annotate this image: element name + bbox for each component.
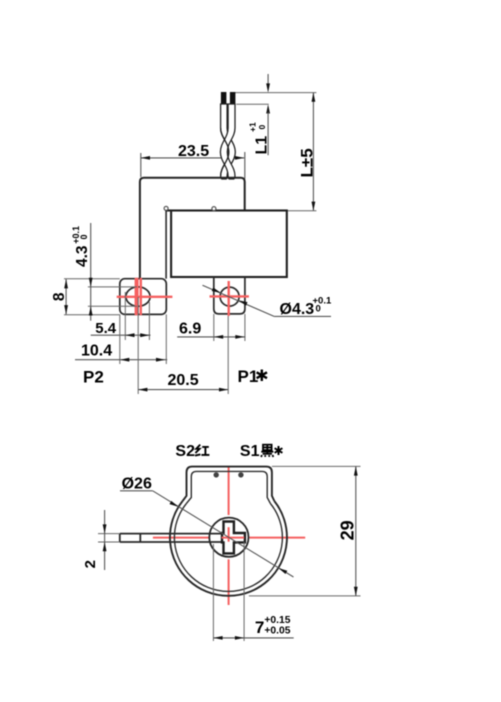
hole bottom tangent extension line bbox=[88, 305, 137, 307]
left tab P2 plate bbox=[120, 279, 167, 315]
svg-text:7: 7 bbox=[255, 618, 264, 637]
rivet hole right bbox=[238, 472, 243, 477]
right tab P1 plate bbox=[214, 277, 245, 314]
label * after S1黑 bbox=[275, 446, 283, 455]
red centerline horizontal (front) bbox=[153, 537, 305, 539]
wire tip 1 (stripped lead) bbox=[221, 92, 227, 104]
hole top tangent extension line bbox=[88, 286, 137, 288]
bracket (side view clamp) bbox=[140, 178, 245, 279]
svg-text:S1: S1 bbox=[240, 443, 260, 460]
svg-text:5.4: 5.4 bbox=[95, 320, 117, 337]
bracket outer outline bbox=[183, 467, 275, 501]
svg-text:29: 29 bbox=[338, 520, 358, 540]
glyph 黑 (black) bbox=[261, 445, 273, 457]
right tab hole bbox=[220, 287, 239, 306]
outer circle Ø26 bbox=[170, 501, 287, 596]
red centerline vertical (front) bbox=[228, 467, 230, 605]
red centerline vertical right tab bbox=[227, 281, 229, 316]
dimension 10.4 bbox=[75, 314, 167, 364]
svg-text:2: 2 bbox=[82, 560, 99, 568]
red centerline horizontal right tab bbox=[210, 295, 249, 297]
rivet hole left bbox=[214, 472, 219, 477]
glyph 红 (red) bbox=[195, 445, 209, 456]
red centerline vertical left tab (double) bbox=[137, 278, 141, 315]
svg-text:6.9: 6.9 bbox=[179, 320, 201, 337]
dimension 7 +0.15/+0.05 bbox=[213, 542, 293, 641]
wire 1 front edge re-stroke bbox=[221, 128, 229, 176]
pin circle right bbox=[212, 207, 216, 211]
bracket inner outline bbox=[186, 471, 270, 503]
tab bottom extension line bbox=[64, 314, 120, 316]
twisted wire pair bbox=[220, 104, 235, 179]
svg-text:0: 0 bbox=[79, 234, 89, 239]
extension line at body top right bbox=[287, 210, 317, 212]
P2 pin line bbox=[165, 211, 167, 279]
dimension L±5 line bbox=[312, 93, 316, 211]
svg-text:+0.15: +0.15 bbox=[264, 615, 290, 626]
svg-text:8: 8 bbox=[51, 292, 68, 301]
dimension 29 bbox=[249, 466, 361, 596]
extension line at wire tip bottom bbox=[236, 103, 268, 105]
left tab slotted hole bbox=[126, 287, 150, 306]
dimension L1 lower arrow segment bbox=[266, 104, 270, 155]
label Ø4.3 +0.1/0 bbox=[280, 296, 332, 319]
wire tip 2 (stripped lead) bbox=[230, 92, 236, 104]
svg-text:P1: P1 bbox=[238, 367, 259, 386]
svg-text:20.5: 20.5 bbox=[168, 372, 199, 389]
svg-text:4.3: 4.3 bbox=[74, 245, 91, 267]
tab top extension line bbox=[64, 278, 120, 280]
svg-text:L±5: L±5 bbox=[298, 148, 317, 177]
dimension 6.9 bbox=[177, 314, 245, 341]
inner circle bbox=[174, 504, 282, 592]
shaft (flat lead) bbox=[120, 534, 223, 542]
wire 2 (right at top) bbox=[220, 104, 235, 179]
hub circle bbox=[209, 518, 248, 557]
cross slot bbox=[222, 522, 245, 554]
dimension text L1 +1/0 (rotated) bbox=[248, 122, 271, 154]
svg-text:L1: L1 bbox=[254, 136, 271, 155]
dimension 23.5 bbox=[141, 143, 245, 179]
red center tick horizontal bbox=[222, 537, 245, 539]
svg-text:+0.05: +0.05 bbox=[264, 625, 290, 636]
svg-text:0: 0 bbox=[316, 304, 321, 315]
red centerline horizontal left tab bbox=[117, 296, 173, 298]
svg-text:0: 0 bbox=[257, 125, 267, 130]
dimension L1 upper arrow segment bbox=[266, 74, 270, 93]
pin circle left bbox=[164, 206, 168, 210]
svg-text:Ø26: Ø26 bbox=[122, 475, 152, 492]
body rectangle bbox=[171, 211, 287, 278]
dimension 20.5 bbox=[138, 297, 228, 394]
leader line Ø26 bbox=[120, 491, 294, 577]
svg-text:10.4: 10.4 bbox=[81, 343, 112, 360]
wire 1 (left at top) bbox=[221, 104, 236, 179]
svg-text:S2: S2 bbox=[175, 443, 195, 460]
svg-text:23.5: 23.5 bbox=[178, 143, 209, 160]
dimension 2 bbox=[82, 510, 120, 570]
dimension 8 bbox=[51, 279, 68, 314]
svg-text:Ø4.3: Ø4.3 bbox=[280, 301, 315, 318]
label P1* bbox=[238, 367, 268, 386]
dimension 5.4 bbox=[91, 292, 151, 340]
extension line at wire tip top bbox=[233, 92, 317, 94]
body top edge extension to left pin bbox=[166, 209, 171, 211]
red center tick vertical bbox=[228, 527, 230, 542]
dimension 4.3 +0.1/0 bbox=[71, 223, 93, 321]
leader line Ø4.3 bbox=[203, 285, 332, 316]
svg-text:P2: P2 bbox=[83, 368, 104, 387]
